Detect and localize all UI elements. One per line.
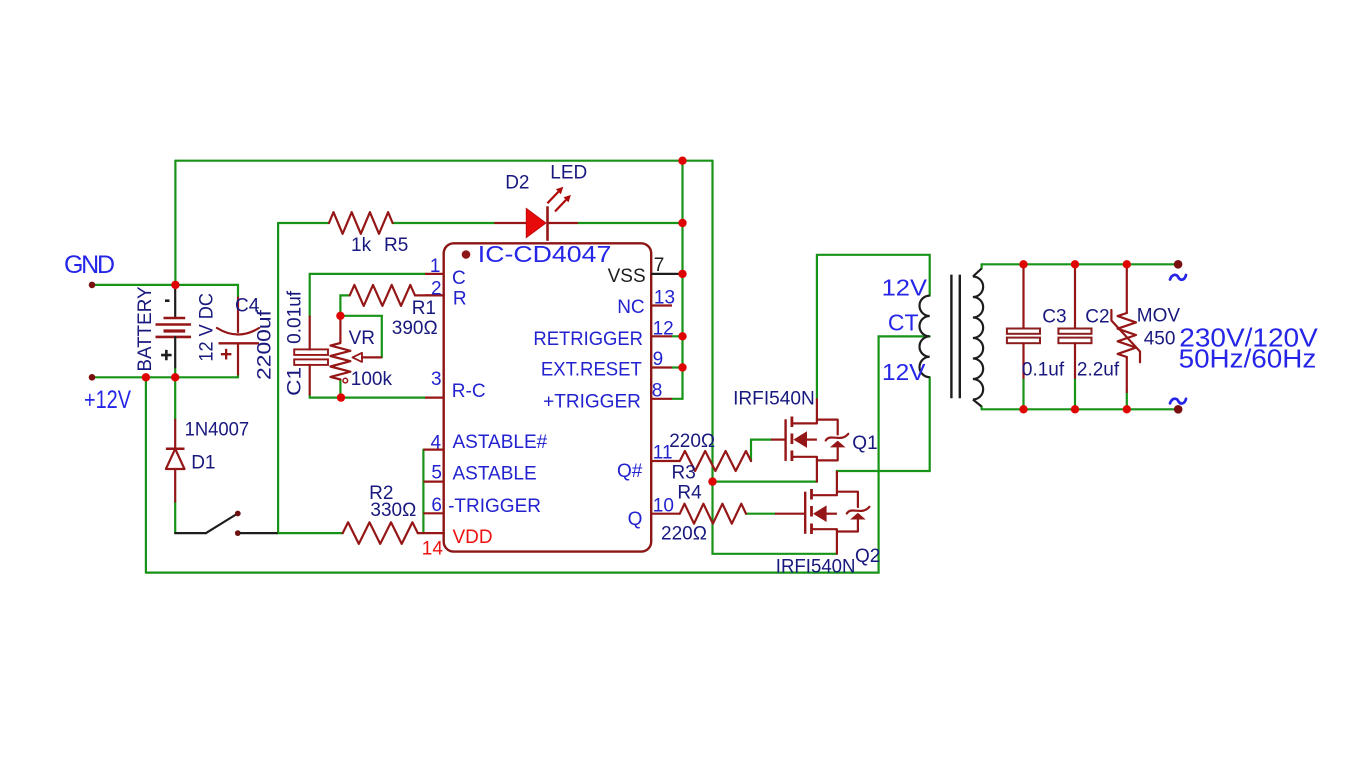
wire VR bottom stub — [339, 380, 341, 398]
svg-text:D1: D1 — [191, 453, 215, 474]
pin 12 stub — [651, 335, 672, 337]
transformer T1 secondary winding — [973, 277, 983, 400]
capacitor C4 straight plate — [219, 342, 260, 344]
wire pin9 to GND vertical — [672, 366, 683, 368]
svg-text:+TRIGGER: +TRIGGER — [543, 392, 641, 413]
resistor R5 — [329, 212, 393, 234]
wire Q1 source to junction — [713, 481, 817, 483]
junction C2 top — [1071, 260, 1079, 268]
pin 8 stub — [651, 398, 672, 400]
wire C3 bottom stub — [1022, 378, 1024, 409]
junction LED row — [678, 219, 686, 227]
svg-text:BATTERY: BATTERY — [135, 286, 156, 371]
transistor Q2 body diode triangle — [850, 513, 866, 520]
battery plate long bottom — [156, 336, 192, 339]
transistor Q1 body diode bar — [826, 434, 849, 441]
svg-text:+12V: +12V — [84, 386, 131, 414]
svg-text:GND: GND — [64, 251, 115, 279]
resistor R2 — [343, 522, 418, 544]
svg-text:R-C: R-C — [452, 381, 486, 402]
capacitor C2 plate bottom — [1058, 338, 1091, 344]
capacitor C2 bottom lead — [1074, 343, 1076, 378]
wire C4 bottom stub — [237, 374, 239, 377]
pin 10 stub — [651, 513, 680, 515]
wire pin12 to GND vertical — [672, 335, 683, 337]
resistor R4 — [680, 504, 746, 524]
svg-text:D2: D2 — [505, 173, 529, 194]
transistor Q1 channel dashes — [791, 417, 794, 462]
switch SW1 blade — [206, 515, 236, 534]
pin 9 stub — [651, 366, 672, 368]
svg-text:R4: R4 — [677, 483, 702, 504]
op-amp U1 IC-CD4047 body — [444, 243, 652, 551]
junction MOSFET sources — [708, 477, 716, 485]
svg-text:0.01uf: 0.01uf — [284, 290, 305, 344]
svg-text:13: 13 — [654, 288, 675, 309]
resistor R3 — [680, 451, 751, 471]
resistor R1 — [350, 285, 415, 306]
wire vertical branch from LED row down to VDD wire — [277, 223, 279, 533]
transistor Q1 gate lead — [771, 439, 786, 441]
switch SW1 contact top — [235, 511, 241, 517]
svg-text:ASTABLE: ASTABLE — [453, 464, 537, 485]
svg-text:1N4007: 1N4007 — [185, 420, 250, 441]
junction pin12 — [678, 332, 686, 340]
junction VR bottom — [337, 393, 345, 401]
svg-text:Q1: Q1 — [852, 433, 877, 454]
svg-text:3: 3 — [431, 369, 442, 390]
transistor Q2 body diode branch — [837, 492, 858, 532]
svg-text:C2: C2 — [1085, 307, 1109, 328]
junction pin7 — [678, 270, 686, 278]
terminal AC out top — [1174, 260, 1183, 269]
capacitor C2 plate top — [1058, 329, 1091, 334]
svg-text:450: 450 — [1144, 329, 1176, 350]
LED D2 anode lead — [495, 222, 526, 224]
wire R1 left to VR junction — [340, 295, 349, 315]
wire transformer bottom tap to Q2 drain — [837, 377, 930, 473]
svg-text:6: 6 — [431, 495, 442, 516]
varistor MOV top lead — [1126, 266, 1128, 313]
svg-text:IRFI540N: IRFI540N — [733, 388, 815, 409]
transformer T1 primary winding — [920, 296, 930, 378]
wire C1 bottom to pin3 — [310, 395, 425, 398]
svg-text:12V: 12V — [882, 359, 926, 385]
svg-text:0.1uf: 0.1uf — [1022, 359, 1065, 380]
svg-text:IC-CD4047: IC-CD4047 — [478, 241, 612, 267]
transistor Q1 gate bar — [784, 419, 786, 461]
svg-text:MOV: MOV — [1137, 306, 1181, 327]
svg-text:2.2uf: 2.2uf — [1077, 359, 1120, 380]
svg-text:R5: R5 — [384, 235, 408, 256]
pin 4 stub — [423, 449, 443, 451]
node AC tilde bottom — [1170, 399, 1186, 404]
wire Q1 drain to transformer top tap — [817, 255, 930, 399]
svg-text:IRFI540N: IRFI540N — [776, 556, 856, 577]
wire LED to GND bus — [577, 222, 682, 224]
wire switch to R2 — [277, 532, 343, 534]
battery plus sign — [161, 350, 172, 360]
pin 13 stub (NC) — [651, 304, 672, 306]
IC U1 bullet — [462, 250, 471, 259]
varistor MOV body — [1118, 313, 1136, 357]
LED D2 cathode bar — [546, 206, 549, 241]
terminal +12V — [89, 374, 96, 381]
svg-text:220Ω: 220Ω — [669, 431, 715, 452]
transistor Q2 channel dashes — [810, 489, 813, 534]
wire battery bottom stub — [174, 367, 176, 377]
svg-text:2200uf: 2200uf — [255, 309, 276, 380]
transistor Q2 body lead — [826, 513, 837, 515]
junction MOV top — [1123, 260, 1131, 268]
wire C2 bottom stub — [1074, 378, 1076, 409]
wire secondary top lead — [980, 264, 982, 268]
resistor R1 lead to pin2 — [415, 294, 444, 296]
svg-text:EXT.RESET: EXT.RESET — [541, 359, 642, 380]
junction MOV bottom — [1123, 405, 1131, 413]
LED D2 triangle — [526, 209, 546, 238]
potentiometer VR wiper arrow — [353, 353, 382, 362]
svg-text:9: 9 — [653, 349, 664, 370]
transistor Q2 gate lead — [775, 513, 805, 515]
diode D1 top lead — [174, 420, 176, 449]
transistor Q1 body diode triangle — [830, 441, 846, 448]
pin 5 stub — [423, 481, 443, 483]
svg-text:-TRIGGER: -TRIGGER — [448, 496, 541, 517]
wire secondary bottom lead — [980, 407, 982, 410]
svg-text:7: 7 — [654, 255, 665, 276]
wire GND rail top-left vertical — [174, 161, 176, 285]
wire GND terminal to battery top — [92, 284, 238, 286]
transformer T1 secondary bottom bend — [973, 400, 982, 407]
transformer T1 secondary top bend — [973, 269, 982, 277]
svg-text:Q: Q — [628, 509, 643, 530]
battery BT1 lead top (black) — [174, 285, 176, 318]
junction battery top — [171, 281, 179, 289]
svg-text:12 V DC: 12 V DC — [196, 293, 217, 362]
switch SW1 output wire — [241, 532, 277, 534]
transistor Q2 drain lead — [812, 472, 837, 495]
pin 2 stub — [425, 294, 444, 296]
capacitor C3 plate top — [1007, 329, 1040, 334]
svg-text:C3: C3 — [1042, 307, 1066, 328]
capacitor C4 plus sign — [221, 349, 232, 360]
svg-text:5: 5 — [431, 463, 442, 484]
wire R4 to Q2 gate — [746, 513, 775, 515]
capacitor C3 plate bottom — [1007, 338, 1040, 344]
junction pin9 — [678, 363, 686, 371]
transistor Q2 gate bar — [804, 492, 806, 534]
resistor R2 lead to pin14 — [418, 532, 444, 534]
pin 7 stub (VSS, black) — [651, 273, 682, 275]
svg-text:RETRIGGER: RETRIGGER — [533, 329, 643, 350]
wire pins 4-5-6 strap to VDD — [422, 450, 424, 533]
wire +12V rail down — [145, 377, 147, 572]
wire D1 top stub — [174, 377, 176, 420]
junction C3 top — [1019, 260, 1027, 268]
svg-text:C1: C1 — [284, 367, 305, 396]
svg-text:10: 10 — [653, 496, 674, 517]
battery lead bottom (black) — [174, 337, 176, 368]
capacitor C3 top lead — [1022, 266, 1024, 329]
wire top GND bus horizontal — [175, 160, 712, 162]
wire +12V long bottom rail to transformer CT — [146, 336, 930, 572]
junction C3 bottom — [1019, 405, 1027, 413]
transistor Q1 body arrow — [793, 431, 807, 448]
wire D1 bottom to switch — [174, 502, 176, 534]
svg-text:R1: R1 — [412, 298, 436, 319]
capacitor C1 bottom lead — [309, 365, 311, 395]
capacitor C4 bottom lead — [237, 343, 239, 374]
wire pin1 to C1 top — [310, 274, 425, 317]
svg-text:LED: LED — [550, 163, 587, 184]
pin 6 stub — [423, 512, 443, 514]
svg-text:Q#: Q# — [617, 461, 643, 482]
wire C4 top lead — [237, 285, 239, 298]
battery plate long — [156, 323, 192, 326]
svg-text:NC: NC — [617, 297, 644, 318]
capacitor C1 plate bottom — [294, 359, 328, 365]
varistor MOV strike line — [1111, 310, 1140, 362]
capacitor C1 top lead — [309, 317, 311, 350]
varistor MOV bottom lead — [1126, 357, 1128, 392]
svg-text:VSS: VSS — [608, 266, 646, 287]
transistor Q1 body diode branch — [817, 420, 838, 461]
svg-text:14: 14 — [422, 539, 444, 560]
svg-text:C: C — [452, 268, 466, 289]
svg-text:R: R — [453, 288, 467, 309]
terminal GND — [89, 282, 96, 289]
wire secondary output top rail — [982, 263, 1179, 265]
svg-text:330Ω: 330Ω — [370, 500, 416, 521]
LED D2 arrow 2 — [555, 195, 571, 212]
pin 1 stub — [425, 273, 444, 275]
potentiometer VR wiper ring — [343, 378, 348, 383]
junction +12V rail branch — [142, 373, 150, 381]
wire LED row from oscillator branch — [278, 222, 329, 224]
svg-text:VDD: VDD — [453, 527, 493, 548]
wire R5 to LED — [393, 222, 496, 224]
node AC tilde top — [1170, 275, 1186, 280]
LED D2 arrow 1 — [547, 187, 563, 204]
svg-text:1k: 1k — [351, 235, 372, 256]
svg-text:Q2: Q2 — [855, 546, 880, 567]
transformer T1 core — [951, 275, 959, 399]
pin 11 stub — [651, 460, 680, 462]
svg-text:100k: 100k — [351, 369, 393, 390]
pin 3 stub — [425, 397, 444, 399]
transistor Q2 source lead — [812, 529, 837, 554]
switch SW1 pole wire — [175, 532, 206, 534]
transistor Q2 body arrow — [813, 505, 827, 522]
junction VR top — [336, 312, 344, 320]
battery plate short top — [164, 317, 186, 319]
svg-text:390Ω: 390Ω — [392, 318, 438, 339]
diode D1 bottom lead — [174, 469, 176, 502]
svg-text:12: 12 — [653, 318, 674, 339]
wire vertical from top bus down to MOSFET sources — [711, 161, 713, 482]
svg-text:CT: CT — [888, 310, 919, 336]
svg-text:ASTABLE#: ASTABLE# — [453, 432, 548, 453]
potentiometer VR body — [330, 316, 350, 380]
transistor Q2 body diode bar — [847, 507, 870, 514]
junction top bus — [678, 157, 686, 165]
wire R3 to Q1 gate — [751, 440, 771, 461]
wire +12V bottom rail — [92, 376, 238, 378]
diode D1 triangle — [166, 449, 185, 469]
capacitor C4 top lead — [237, 298, 239, 332]
terminal AC out bottom — [1174, 405, 1183, 414]
capacitor C4 curved plate — [217, 328, 259, 335]
transistor Q1 source lead — [792, 457, 817, 482]
wire MOV bottom stub — [1126, 392, 1128, 409]
svg-text:VR: VR — [349, 328, 375, 349]
wire junction down to Q2 source — [713, 482, 837, 554]
wire VR wiper loop — [340, 316, 381, 358]
battery minus sign — [165, 299, 170, 302]
switch SW1 contact bottom — [235, 530, 241, 536]
wire secondary output bottom rail — [982, 408, 1179, 410]
svg-text:R3: R3 — [672, 463, 696, 484]
LED D2 cathode lead — [548, 222, 578, 224]
svg-text:2: 2 — [431, 278, 442, 299]
transistor Q1 drain lead — [792, 399, 817, 423]
battery plate short thick — [164, 329, 186, 332]
capacitor C1 plate top — [294, 349, 328, 355]
junction battery bottom / D1 — [171, 373, 179, 381]
svg-text:220Ω: 220Ω — [661, 524, 707, 545]
wire vertical from top bus to VSS/pins 7,12,9,8 — [672, 161, 683, 399]
capacitor C3 bottom lead — [1022, 343, 1024, 378]
svg-text:4: 4 — [431, 433, 442, 454]
svg-text:1: 1 — [430, 256, 441, 277]
transistor Q1 body lead — [807, 439, 817, 441]
svg-text:8: 8 — [652, 380, 663, 401]
junction C2 bottom — [1071, 405, 1079, 413]
svg-text:50Hz/60Hz: 50Hz/60Hz — [1179, 345, 1317, 373]
diode D1 cathode bar — [166, 448, 185, 451]
capacitor C2 top lead — [1074, 266, 1076, 329]
svg-text:12V: 12V — [882, 275, 928, 301]
